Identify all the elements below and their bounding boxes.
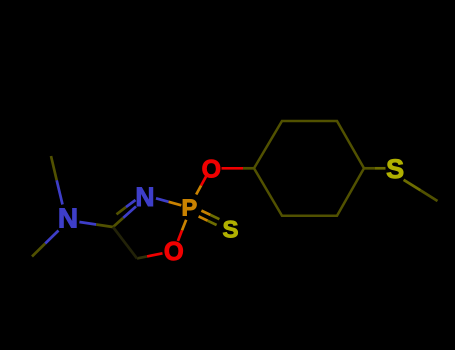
wire ring-S2 (S half) bbox=[375, 167, 386, 170]
wire N2-P (P half) bbox=[169, 202, 182, 206]
wire S2-methyl (S half) bbox=[404, 180, 421, 191]
svg-text:P: P bbox=[181, 195, 197, 221]
wire O2-C5 (C half) bbox=[137, 256, 147, 258]
wire N1 methyl up (C half) bbox=[51, 156, 57, 180]
svg-text:N: N bbox=[135, 182, 154, 212]
wire C4=N2 main (C half) bbox=[113, 218, 123, 227]
svg-text:O: O bbox=[202, 155, 221, 183]
wire O1-ring (O half) bbox=[222, 167, 244, 170]
wire N1-C4 (N half) bbox=[79, 222, 96, 225]
svg-text:S: S bbox=[222, 217, 238, 244]
svg-text:S: S bbox=[386, 154, 404, 184]
wire S2-methyl (C half) bbox=[421, 190, 438, 201]
wire N1 methyl up (N half) bbox=[57, 180, 63, 204]
wire N1 methyl down (N half) bbox=[45, 231, 58, 244]
wire P-O2 (P half) bbox=[182, 220, 186, 231]
wire C4=N2 inner (N half) bbox=[126, 200, 136, 207]
wire N1 methyl down (C half) bbox=[32, 244, 45, 257]
wire O1-ring (C half) bbox=[243, 167, 254, 170]
wire ring-S2 (C half) bbox=[364, 167, 375, 170]
svg-text:O: O bbox=[164, 238, 184, 266]
benzene ring bbox=[254, 121, 364, 216]
wire P-O1 (O half) bbox=[201, 177, 206, 186]
wire P=S1 lower line (S half) bbox=[208, 221, 217, 225]
svg-text:N: N bbox=[58, 202, 78, 233]
wire C4=N2 main (N half) bbox=[123, 206, 136, 217]
wire N1-C4 (C half) bbox=[96, 225, 113, 228]
wire C4=N2 inner (C half) bbox=[117, 207, 127, 214]
wire C5-C4 ring bond bbox=[113, 227, 137, 259]
wire O2-C5 (O half) bbox=[147, 253, 163, 256]
wire P=S1 upper line (P half) bbox=[201, 211, 210, 215]
wire P=S1 upper line (S half) bbox=[210, 215, 219, 219]
wire P=S1 lower line (P half) bbox=[199, 216, 208, 220]
wire N2-P (N half) bbox=[156, 198, 169, 202]
wire P-O2 (O half) bbox=[178, 230, 182, 241]
wire P-O1 (P half) bbox=[196, 186, 201, 195]
